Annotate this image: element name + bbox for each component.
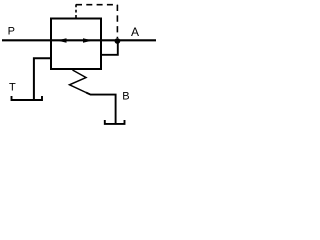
svg-text:T: T: [9, 82, 16, 94]
wire P-A main line: [2, 39, 156, 41]
tank symbol T: [12, 96, 43, 100]
svg-text:A: A: [131, 25, 139, 39]
spring: [70, 70, 87, 93]
arrowhead right (flow arrow): [83, 38, 93, 42]
wire B port: [86, 93, 116, 124]
wire pilot feedback to valve right side: [101, 41, 118, 55]
svg-text:B: B: [122, 90, 129, 102]
tank symbol B: [105, 120, 125, 124]
arrowhead left (flow arrow): [57, 38, 67, 42]
svg-text:P: P: [8, 26, 15, 38]
node junction dot: [115, 38, 121, 44]
pilot line dashed vertical right: [116, 5, 118, 38]
pilot line dashed vertical left: [75, 4, 77, 17]
valve body square: [51, 19, 101, 70]
pilot line dashed horizontal top: [76, 4, 117, 6]
wire T port: [34, 58, 51, 99]
